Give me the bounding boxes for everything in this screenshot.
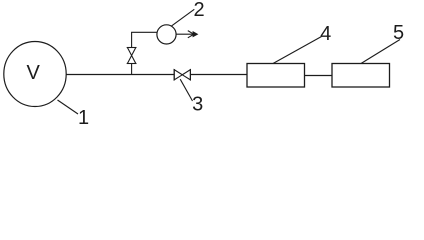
wire main line left segment <box>66 74 174 76</box>
svg-text:3: 3 <box>192 94 203 116</box>
leader line 5 <box>361 40 400 64</box>
svg-text:1: 1 <box>78 107 89 129</box>
valve 3 base end caps <box>173 69 175 81</box>
svg-text:V: V <box>27 62 41 84</box>
block 4 (rectangle) <box>247 64 305 88</box>
instrument circle 2 <box>157 25 176 44</box>
wire branch horizontal to instrument <box>131 31 157 33</box>
valve 3 (horizontal bowtie) <box>174 70 190 80</box>
leader line 4 <box>273 37 322 64</box>
valve 1 base end caps <box>127 47 137 49</box>
leader line 2 <box>171 9 194 26</box>
svg-text:4: 4 <box>320 23 331 45</box>
wire between block 4 and block 5 <box>305 75 333 77</box>
leader line 3 <box>180 79 192 101</box>
arrow out of instrument <box>176 31 198 38</box>
leader line 1 <box>58 100 79 114</box>
block 5 (rectangle) <box>332 64 390 88</box>
wire main line right segment <box>190 74 247 76</box>
wire branch vertical lower <box>131 64 133 75</box>
valve 1 on branch (vertical hourglass) <box>127 48 135 64</box>
svg-text:2: 2 <box>193 0 204 21</box>
vessel V1 (circle with V) <box>4 42 66 107</box>
svg-text:5: 5 <box>393 22 404 44</box>
wire branch vertical upper <box>131 32 133 47</box>
